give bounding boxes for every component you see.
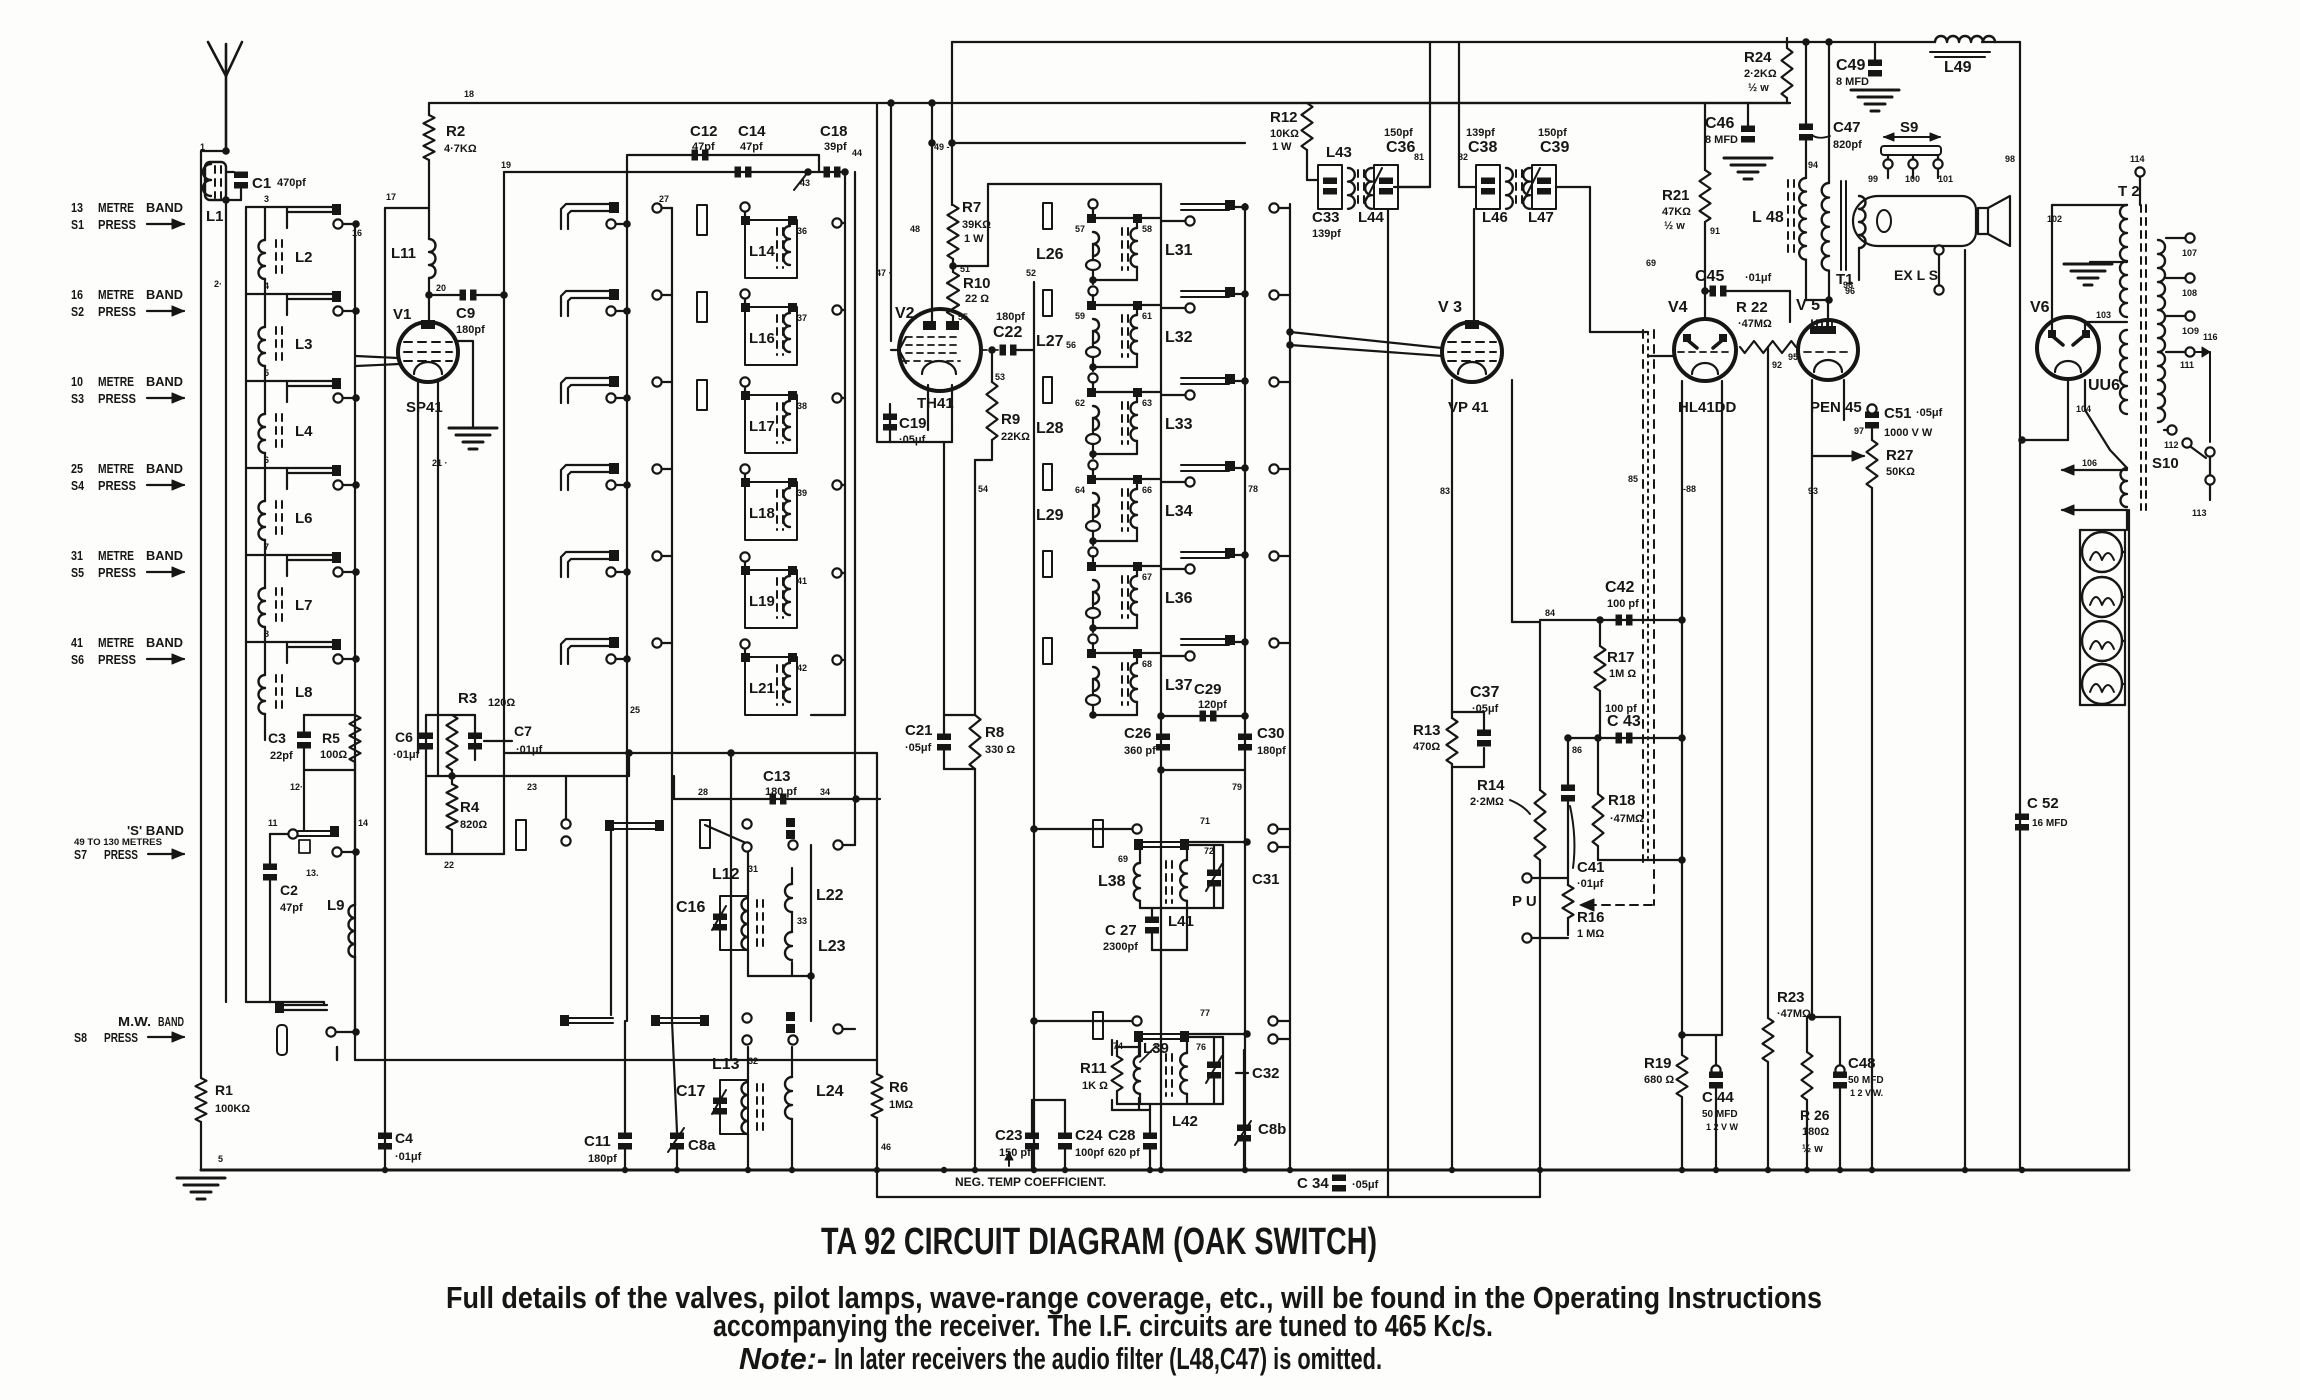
svg-text:S5: S5	[71, 565, 84, 580]
svg-text:11: 11	[268, 818, 278, 828]
svg-text:49 -: 49 -	[934, 142, 950, 152]
svg-text:72: 72	[1204, 846, 1214, 856]
svg-text:101: 101	[1938, 174, 1953, 184]
svg-text:2·2MΩ: 2·2MΩ	[1470, 796, 1504, 808]
svg-text:78: 78	[1248, 484, 1258, 494]
svg-text:1K Ω: 1K Ω	[1082, 1080, 1108, 1092]
svg-text:R8: R8	[985, 724, 1004, 741]
svg-text:3: 3	[264, 194, 269, 204]
svg-text:T 2: T 2	[2118, 183, 2140, 200]
svg-text:R19: R19	[1644, 1055, 1672, 1072]
svg-text:R2: R2	[446, 123, 465, 140]
svg-text:C4: C4	[395, 1130, 413, 1146]
svg-text:C 34: C 34	[1297, 1175, 1329, 1192]
svg-text:EX L S: EX L S	[1894, 267, 1938, 283]
svg-text:V6: V6	[2030, 299, 2050, 316]
svg-text:R16: R16	[1577, 909, 1605, 926]
svg-text:L7: L7	[295, 597, 313, 614]
svg-text:114: 114	[2130, 154, 2145, 164]
svg-text:1 W: 1 W	[1272, 141, 1292, 153]
svg-text:1000 V W: 1000 V W	[1884, 427, 1933, 439]
svg-text:UU6: UU6	[2088, 377, 2120, 394]
svg-text:62: 62	[1075, 398, 1085, 408]
svg-text:98: 98	[2005, 154, 2015, 164]
svg-text:36: 36	[797, 226, 807, 236]
svg-text:In later receivers the audio f: In later receivers the audio filter (L48…	[834, 1341, 1382, 1376]
svg-text:C39: C39	[1540, 139, 1569, 156]
svg-text:C36: C36	[1386, 139, 1415, 156]
svg-text:21 ·: 21 ·	[432, 458, 448, 468]
svg-text:C33: C33	[1312, 209, 1340, 226]
svg-text:360 pf: 360 pf	[1124, 745, 1156, 757]
svg-text:C47: C47	[1833, 119, 1861, 136]
svg-text:50KΩ: 50KΩ	[1886, 466, 1915, 478]
svg-text:L34: L34	[1165, 503, 1193, 520]
svg-text:METRE: METRE	[98, 287, 134, 302]
svg-text:64: 64	[1075, 485, 1085, 495]
svg-text:TH41: TH41	[917, 395, 954, 412]
svg-text:47pf: 47pf	[692, 141, 715, 153]
svg-text:L37: L37	[1165, 677, 1193, 694]
svg-text:·47MΩ: ·47MΩ	[1610, 813, 1644, 825]
svg-text:23: 23	[527, 782, 537, 792]
svg-text:L1: L1	[206, 208, 224, 225]
svg-text:57: 57	[1075, 224, 1085, 234]
svg-text:470pf: 470pf	[277, 177, 306, 189]
svg-text:L29: L29	[1036, 507, 1064, 524]
svg-text:R1: R1	[215, 1082, 233, 1098]
svg-text:·01μf: ·01μf	[393, 749, 420, 761]
svg-text:2300pf: 2300pf	[1103, 941, 1138, 953]
svg-text:C7: C7	[514, 723, 532, 739]
svg-text:14: 14	[358, 818, 368, 828]
svg-text:71: 71	[1200, 816, 1210, 826]
svg-text:100 pf: 100 pf	[1607, 598, 1639, 610]
svg-text:C29: C29	[1194, 681, 1222, 698]
svg-text:R24: R24	[1744, 49, 1772, 66]
svg-text:L26: L26	[1036, 246, 1064, 263]
svg-text:C 27: C 27	[1105, 922, 1137, 939]
svg-text:47KΩ: 47KΩ	[1662, 206, 1691, 218]
svg-text:C24: C24	[1075, 1127, 1103, 1144]
svg-text:C48: C48	[1848, 1055, 1876, 1072]
svg-text:·47MΩ: ·47MΩ	[1738, 318, 1772, 330]
svg-text:BAND: BAND	[158, 1014, 184, 1029]
svg-text:·05μf: ·05μf	[1916, 407, 1943, 419]
svg-text:L18: L18	[749, 505, 775, 522]
svg-text:L49: L49	[1944, 59, 1972, 76]
svg-text:22pf: 22pf	[270, 750, 293, 762]
svg-text:L28: L28	[1036, 420, 1064, 437]
svg-text:4·7KΩ: 4·7KΩ	[444, 143, 477, 155]
svg-text:C19: C19	[899, 415, 927, 432]
svg-text:820Ω: 820Ω	[460, 819, 487, 831]
svg-text:150pf: 150pf	[1538, 127, 1567, 139]
svg-text:L22: L22	[816, 887, 844, 904]
svg-text:C37: C37	[1470, 684, 1499, 701]
svg-text:M.W.: M.W.	[118, 1014, 151, 1029]
svg-text:NEG. TEMP COEFFICIENT.: NEG. TEMP COEFFICIENT.	[955, 1175, 1106, 1189]
svg-text:L 48: L 48	[1752, 209, 1784, 226]
svg-text:C42: C42	[1605, 579, 1634, 596]
svg-text:V1: V1	[393, 306, 411, 323]
svg-text:L33: L33	[1165, 416, 1193, 433]
svg-text:620 pf: 620 pf	[1108, 1147, 1140, 1159]
svg-text:R21: R21	[1662, 187, 1690, 204]
svg-text:C3: C3	[268, 730, 286, 746]
svg-text:L24: L24	[816, 1083, 844, 1100]
svg-text:R5: R5	[322, 730, 340, 746]
svg-text:L47: L47	[1528, 209, 1554, 226]
svg-text:96: 96	[1843, 280, 1853, 290]
svg-text:31: 31	[748, 864, 758, 874]
svg-text:L32: L32	[1165, 329, 1193, 346]
svg-text:100Ω: 100Ω	[320, 749, 347, 761]
svg-text:111: 111	[2180, 360, 2194, 370]
svg-text:VP 41: VP 41	[1448, 399, 1489, 416]
svg-text:R13: R13	[1413, 722, 1441, 739]
svg-text:V 3: V 3	[1438, 299, 1462, 316]
svg-text:1: 1	[200, 142, 205, 152]
svg-text:½ w: ½ w	[1664, 220, 1685, 232]
svg-text:17: 17	[386, 192, 396, 202]
svg-text:106: 106	[2082, 458, 2097, 468]
svg-text:22 Ω: 22 Ω	[965, 293, 989, 305]
svg-text:L21: L21	[749, 680, 775, 697]
svg-text:54: 54	[978, 484, 988, 494]
svg-text:53: 53	[995, 372, 1005, 382]
svg-text:33: 33	[797, 916, 807, 926]
svg-text:102: 102	[2047, 214, 2062, 224]
svg-text:22: 22	[444, 860, 454, 870]
svg-text:66: 66	[1142, 485, 1152, 495]
svg-text:V2: V2	[895, 305, 915, 322]
svg-text:L11: L11	[391, 245, 416, 262]
svg-text:L31: L31	[1165, 242, 1193, 259]
svg-text:·01μf: ·01μf	[395, 1151, 422, 1163]
svg-text:C41: C41	[1577, 859, 1605, 876]
svg-text:51: 51	[960, 264, 970, 274]
svg-text:S4: S4	[71, 478, 85, 493]
svg-text:C1: C1	[252, 175, 271, 192]
svg-text:120Ω: 120Ω	[488, 697, 515, 709]
svg-text:accompanying the receiver. The: accompanying the receiver. The I.F. circ…	[713, 1308, 1493, 1343]
svg-text:·01μf: ·01μf	[516, 744, 543, 756]
svg-text:S2: S2	[71, 304, 84, 319]
svg-text:R3: R3	[458, 690, 477, 707]
svg-text:28: 28	[698, 787, 708, 797]
svg-text:37: 37	[797, 313, 807, 323]
svg-text:L46: L46	[1482, 209, 1508, 226]
svg-text:12·: 12·	[290, 782, 303, 792]
svg-text:BAND: BAND	[146, 548, 183, 563]
svg-text:180pf: 180pf	[996, 311, 1025, 323]
svg-text:R27: R27	[1886, 447, 1914, 464]
svg-text:77: 77	[1200, 1008, 1210, 1018]
svg-text:R23: R23	[1777, 989, 1805, 1006]
svg-text:99: 99	[1868, 174, 1878, 184]
svg-text:C22: C22	[993, 324, 1022, 341]
svg-text:63: 63	[1142, 398, 1152, 408]
svg-text:100: 100	[1905, 174, 1920, 184]
svg-text:C14: C14	[738, 123, 766, 140]
svg-text:·05μf: ·05μf	[905, 742, 932, 754]
svg-text:100KΩ: 100KΩ	[215, 1103, 250, 1115]
svg-text:L27: L27	[1036, 333, 1064, 350]
svg-text:16: 16	[352, 228, 362, 238]
svg-text:PRESS: PRESS	[98, 217, 136, 232]
svg-text:L43: L43	[1326, 144, 1352, 161]
svg-text:S7: S7	[74, 847, 87, 862]
svg-text:V 5: V 5	[1796, 297, 1820, 314]
svg-text:16 MFD: 16 MFD	[2032, 818, 2068, 829]
svg-text:C30: C30	[1257, 725, 1285, 742]
svg-text:59: 59	[1075, 311, 1085, 321]
svg-text:½ w: ½ w	[1748, 82, 1769, 94]
svg-text:10KΩ: 10KΩ	[1270, 128, 1299, 140]
svg-text:METRE: METRE	[98, 635, 134, 650]
svg-text:97: 97	[1854, 426, 1864, 436]
svg-text:BAND: BAND	[146, 461, 183, 476]
svg-text:BAND: BAND	[146, 287, 183, 302]
svg-text:C23: C23	[995, 1127, 1023, 1144]
svg-text:C 43: C 43	[1607, 713, 1641, 730]
svg-text:R6: R6	[889, 1079, 908, 1096]
svg-text:L2: L2	[295, 249, 313, 266]
svg-text:91: 91	[1710, 226, 1720, 236]
svg-text:S10: S10	[2152, 455, 2179, 472]
svg-text:85: 85	[1628, 474, 1638, 484]
svg-text:C8b: C8b	[1258, 1121, 1286, 1138]
svg-text:50 MFD: 50 MFD	[1702, 1109, 1738, 1120]
svg-text:C38: C38	[1468, 139, 1497, 156]
svg-text:C21: C21	[905, 722, 933, 739]
svg-text:L6: L6	[295, 510, 313, 527]
svg-text:79: 79	[1232, 782, 1242, 792]
svg-text:108: 108	[2182, 288, 2197, 298]
svg-text:C6: C6	[395, 729, 413, 745]
svg-text:PRESS: PRESS	[98, 652, 136, 667]
svg-text:8 MFD: 8 MFD	[1705, 134, 1738, 146]
svg-text:680 Ω: 680 Ω	[1644, 1074, 1674, 1086]
svg-text:1 2 V.W.: 1 2 V.W.	[1850, 1088, 1883, 1098]
svg-text:61: 61	[1142, 311, 1152, 321]
svg-text:·05μf: ·05μf	[899, 434, 926, 446]
svg-text:47pf: 47pf	[740, 141, 763, 153]
svg-text:103: 103	[2096, 310, 2111, 320]
svg-text:58: 58	[1142, 224, 1152, 234]
svg-text:L17: L17	[749, 418, 775, 435]
svg-text:180pf: 180pf	[588, 1153, 617, 1165]
svg-text:L9: L9	[327, 897, 345, 914]
svg-text:150 pf: 150 pf	[999, 1147, 1031, 1159]
svg-text:52: 52	[1026, 268, 1036, 278]
svg-text:81: 81	[1414, 152, 1424, 162]
svg-text:1 W: 1 W	[964, 233, 984, 245]
svg-text:R18: R18	[1608, 792, 1636, 809]
svg-text:38: 38	[797, 401, 807, 411]
svg-text:TA 92 CIRCUIT DIAGRAM (OAK SWI: TA 92 CIRCUIT DIAGRAM (OAK SWITCH)	[821, 1221, 1377, 1263]
svg-text:180pf: 180pf	[456, 324, 485, 336]
svg-text:S9: S9	[1900, 119, 1918, 136]
svg-text:76: 76	[1196, 1042, 1206, 1052]
svg-text:P U: P U	[1512, 893, 1537, 910]
svg-text:L44: L44	[1358, 209, 1385, 226]
svg-text:46: 46	[881, 1142, 891, 1152]
svg-text:10: 10	[71, 374, 83, 389]
svg-text:2·: 2·	[214, 279, 222, 289]
svg-text:C13: C13	[763, 768, 791, 785]
svg-text:C2: C2	[280, 882, 298, 898]
svg-text:L16: L16	[749, 330, 775, 347]
svg-text:2·2KΩ: 2·2KΩ	[1744, 68, 1777, 80]
svg-text:C16: C16	[676, 899, 705, 916]
svg-text:METRE: METRE	[98, 200, 134, 215]
svg-text:83: 83	[1440, 486, 1450, 496]
svg-text:92: 92	[1772, 360, 1782, 370]
svg-text:R12: R12	[1270, 109, 1298, 126]
svg-text:50 MFD: 50 MFD	[1848, 1075, 1884, 1086]
svg-text:112: 112	[2164, 440, 2179, 450]
svg-text:R10: R10	[963, 275, 991, 292]
svg-text:116: 116	[2203, 332, 2218, 342]
svg-text:R7: R7	[962, 199, 981, 216]
svg-text:48: 48	[910, 224, 920, 234]
svg-text:C11: C11	[584, 1133, 611, 1150]
svg-text:R 22: R 22	[1736, 299, 1768, 316]
svg-text:94: 94	[1808, 160, 1818, 170]
svg-text:L19: L19	[749, 593, 775, 610]
svg-text:41: 41	[797, 576, 807, 586]
svg-text:104: 104	[2076, 404, 2091, 414]
svg-text:C 52: C 52	[2027, 795, 2059, 812]
svg-text:68: 68	[1142, 659, 1152, 669]
svg-text:L13: L13	[712, 1056, 740, 1073]
svg-text:PRESS: PRESS	[104, 1030, 138, 1045]
svg-text:C9: C9	[456, 305, 475, 322]
svg-text:'S' BAND: 'S' BAND	[127, 823, 184, 838]
svg-text:42: 42	[797, 663, 807, 673]
svg-text:L41: L41	[1168, 913, 1194, 930]
svg-text:150pf: 150pf	[1384, 127, 1413, 139]
svg-text:C51: C51	[1884, 405, 1912, 422]
svg-text:½ w: ½ w	[1802, 1143, 1823, 1155]
svg-text:100 pf: 100 pf	[1605, 703, 1637, 715]
svg-text:180pf: 180pf	[1257, 745, 1286, 757]
svg-text:·01μf: ·01μf	[1745, 272, 1772, 284]
svg-text:L3: L3	[295, 336, 313, 353]
svg-text:·05μf: ·05μf	[1352, 1179, 1379, 1191]
svg-text:METRE: METRE	[98, 548, 134, 563]
svg-text:330 Ω: 330 Ω	[985, 744, 1015, 756]
svg-text:1O9: 1O9	[2182, 326, 2199, 336]
svg-text:PEN 45: PEN 45	[1810, 399, 1862, 416]
svg-text:C28: C28	[1108, 1127, 1136, 1144]
svg-text:113: 113	[2192, 508, 2207, 518]
svg-text:1 2 V W: 1 2 V W	[1706, 1122, 1739, 1132]
svg-text:METRE: METRE	[98, 374, 134, 389]
svg-text:25: 25	[71, 461, 83, 476]
svg-text:47pf: 47pf	[280, 902, 303, 914]
svg-text:820pf: 820pf	[1833, 139, 1862, 151]
svg-text:34: 34	[820, 787, 830, 797]
svg-text:39pf: 39pf	[824, 141, 847, 153]
svg-text:PRESS: PRESS	[98, 391, 136, 406]
svg-text:R11: R11	[1080, 1060, 1107, 1077]
svg-text:16: 16	[71, 287, 83, 302]
svg-text:V4: V4	[1668, 299, 1688, 316]
svg-text:BAND: BAND	[146, 200, 183, 215]
svg-text:R9: R9	[1001, 411, 1020, 428]
svg-text:25: 25	[630, 705, 640, 715]
svg-text:C46: C46	[1705, 115, 1734, 132]
svg-text:22KΩ: 22KΩ	[1001, 431, 1030, 443]
svg-text:C12: C12	[690, 123, 718, 140]
svg-text:C18: C18	[820, 123, 848, 140]
svg-text:39KΩ: 39KΩ	[962, 219, 991, 231]
svg-text:S3: S3	[71, 391, 84, 406]
svg-text:C17: C17	[676, 1083, 705, 1100]
svg-text:S8: S8	[74, 1030, 87, 1045]
svg-text:31: 31	[71, 548, 83, 563]
svg-text:39: 39	[797, 488, 807, 498]
svg-text:BAND: BAND	[146, 635, 183, 650]
svg-text:L12: L12	[712, 866, 740, 883]
svg-text:·01μf: ·01μf	[1577, 878, 1604, 890]
svg-text:·05μf: ·05μf	[1472, 703, 1499, 715]
svg-text:44: 44	[852, 148, 862, 158]
svg-text:20: 20	[436, 283, 446, 293]
svg-text:PRESS: PRESS	[98, 304, 136, 319]
svg-text:C45: C45	[1695, 268, 1724, 285]
svg-text:R14: R14	[1477, 777, 1505, 794]
svg-text:R17: R17	[1607, 649, 1635, 666]
svg-text:19: 19	[501, 160, 511, 170]
svg-text:L4: L4	[295, 423, 313, 440]
svg-text:470Ω: 470Ω	[1413, 741, 1440, 753]
svg-text:1MΩ: 1MΩ	[889, 1099, 913, 1111]
svg-text:HL41DD: HL41DD	[1678, 399, 1737, 416]
svg-text:8 MFD: 8 MFD	[1836, 76, 1869, 88]
svg-text:L36: L36	[1165, 590, 1193, 607]
svg-text:5: 5	[218, 1154, 223, 1164]
svg-text:120pf: 120pf	[1198, 699, 1227, 711]
svg-text:C31: C31	[1252, 871, 1280, 888]
svg-text:L23: L23	[818, 938, 846, 955]
svg-text:139pf: 139pf	[1312, 228, 1341, 240]
svg-text:C26: C26	[1124, 725, 1152, 742]
svg-text:67: 67	[1142, 572, 1152, 582]
svg-text:41: 41	[71, 635, 83, 650]
svg-text:69: 69	[1118, 854, 1128, 864]
svg-text:1 MΩ: 1 MΩ	[1577, 928, 1604, 940]
svg-text:S6: S6	[71, 652, 84, 667]
svg-text:L14: L14	[749, 243, 776, 260]
svg-text:C 44: C 44	[1702, 1089, 1734, 1106]
svg-text:PRESS: PRESS	[98, 478, 136, 493]
svg-text:METRE: METRE	[98, 461, 134, 476]
svg-text:R 26: R 26	[1800, 1107, 1830, 1123]
svg-text:107: 107	[2182, 248, 2197, 258]
svg-text:27: 27	[659, 194, 669, 204]
svg-text:R4: R4	[460, 799, 480, 816]
svg-text:69: 69	[1646, 258, 1656, 268]
svg-text:13: 13	[71, 200, 83, 215]
svg-text:13.: 13.	[306, 868, 319, 878]
svg-text:BAND: BAND	[146, 374, 183, 389]
svg-text:Note:-: Note:-	[739, 1341, 827, 1376]
svg-text:C8a: C8a	[688, 1137, 716, 1154]
